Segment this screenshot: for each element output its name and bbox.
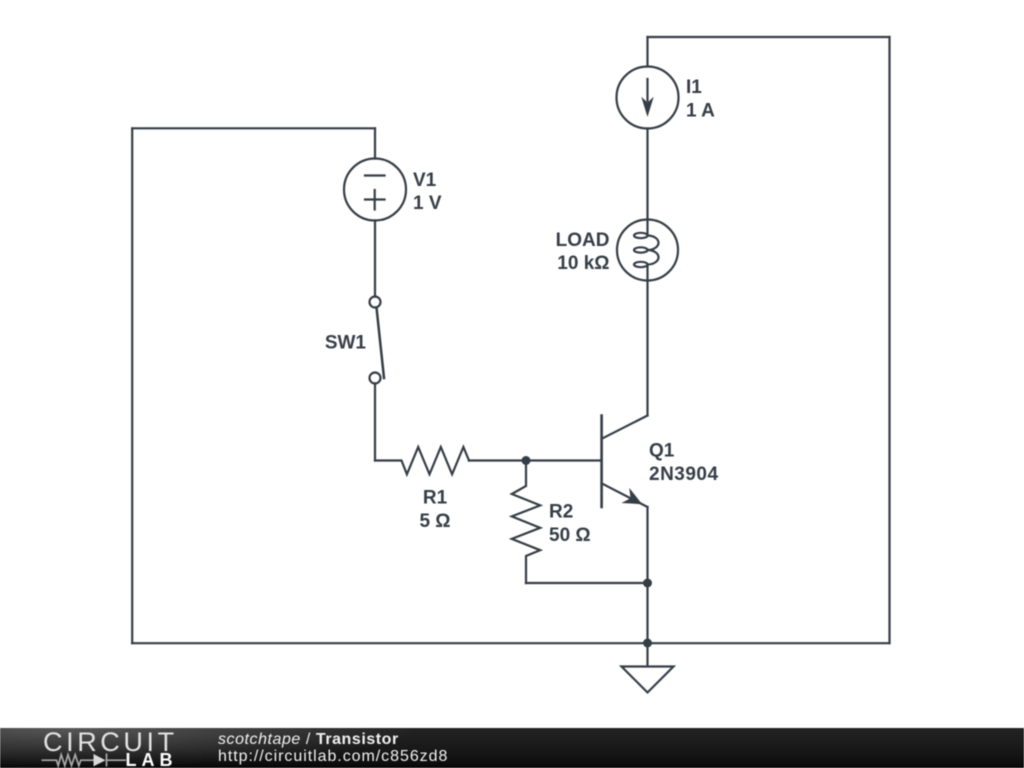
lamp LOAD	[617, 220, 678, 282]
wire R1 right to base node	[469, 459, 601, 461]
transistor Q1	[602, 416, 648, 508]
wire SW1 to R1	[374, 384, 376, 461]
svg-text:Q1: Q1	[649, 441, 675, 462]
svg-text:SW1: SW1	[325, 333, 367, 354]
svg-text:1 V: 1 V	[413, 193, 442, 214]
wire R2 bottom horizontal	[526, 582, 648, 584]
svg-text:5 Ω: 5 Ω	[419, 511, 450, 532]
node ground junction	[643, 639, 652, 648]
footer bar	[0, 728, 1024, 768]
switch SW1	[370, 297, 385, 384]
wire left vertical	[131, 128, 133, 643]
wire I1 top lead	[646, 37, 648, 67]
wire top-right horizontal	[648, 36, 890, 38]
svg-text:R1: R1	[423, 488, 448, 509]
footer logo CIRCUIT	[43, 727, 178, 758]
footer logo resistor-diode glyph	[0, 728, 200, 768]
wire right vertical	[888, 37, 890, 643]
svg-text:LOAD: LOAD	[556, 230, 610, 251]
footer title line	[218, 731, 399, 749]
svg-text:1 A: 1 A	[686, 101, 715, 122]
svg-text:10 kΩ: 10 kΩ	[557, 253, 609, 274]
svg-text:2N3904: 2N3904	[649, 464, 719, 485]
wire V1 to SW1	[374, 221, 376, 297]
wire emitter to ground	[646, 507, 648, 666]
wire I1 to LOAD	[646, 129, 648, 220]
node base junction	[522, 456, 531, 465]
svg-text:I1: I1	[686, 77, 702, 98]
footer logo LAB	[126, 750, 178, 768]
wire top-left horizontal	[132, 127, 375, 129]
wire LOAD to collector	[646, 281, 648, 416]
ground	[622, 667, 674, 693]
node emitter junction	[643, 579, 652, 588]
svg-text:R2: R2	[549, 502, 573, 523]
svg-text:50 Ω: 50 Ω	[549, 525, 591, 546]
current source I1	[617, 67, 679, 129]
wire V1 top lead	[374, 128, 376, 158]
footer url line	[218, 748, 448, 766]
svg-text:V1: V1	[413, 170, 437, 191]
resistor R2	[512, 461, 540, 584]
voltage source V1	[344, 159, 406, 221]
wire bottom horizontal	[132, 642, 889, 644]
resistor R1	[375, 447, 469, 474]
